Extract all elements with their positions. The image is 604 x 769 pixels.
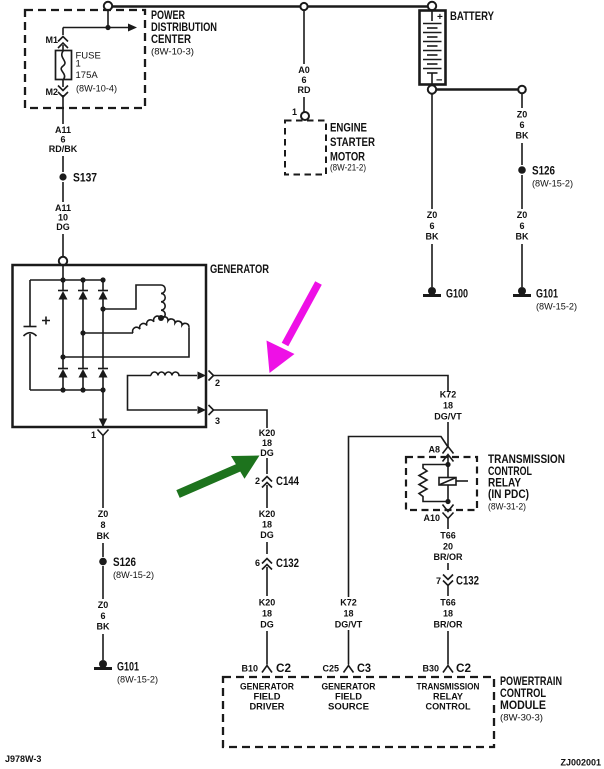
svg-text:175A: 175A bbox=[76, 70, 99, 81]
footer: drawing number ZJ002001 bbox=[560, 758, 601, 768]
connector A8 fork at relay bbox=[428, 445, 453, 465]
label K20 18 DG (top) bbox=[259, 428, 276, 458]
label: GENERATOR FIELD DRIVER bbox=[240, 682, 294, 713]
svg-text:B10: B10 bbox=[241, 664, 258, 674]
wire: stator phase B (col2 to coil) bbox=[83, 332, 133, 334]
svg-text:6: 6 bbox=[301, 75, 306, 85]
svg-text:CONTROL: CONTROL bbox=[426, 702, 471, 713]
svg-text:CENTER: CENTER bbox=[151, 32, 191, 46]
wire: generator ground lead to pin 1 bbox=[99, 390, 107, 427]
junction dots on bottom bus bbox=[60, 387, 105, 392]
svg-text:A11: A11 bbox=[55, 203, 71, 213]
diode D2 (upper, col 2) bbox=[78, 280, 88, 333]
svg-text:C3: C3 bbox=[357, 661, 371, 675]
junction dot at PDC bus bbox=[105, 25, 110, 30]
wire A11 6 RD/BK bbox=[49, 95, 78, 172]
svg-text:(8W-21-2): (8W-21-2) bbox=[330, 163, 366, 174]
wire: generator B+ lead into rectifier bbox=[62, 265, 64, 280]
svg-text:G100: G100 bbox=[446, 287, 468, 301]
svg-text:Z0: Z0 bbox=[98, 509, 109, 519]
label K72 18 DG/VT (upper) bbox=[434, 390, 462, 422]
connector A10 at relay bottom bbox=[423, 505, 453, 525]
svg-text:Z0: Z0 bbox=[98, 600, 109, 610]
ground G101 (right) bbox=[513, 287, 577, 313]
svg-text:STARTER: STARTER bbox=[330, 135, 375, 149]
svg-text:M2: M2 bbox=[45, 87, 58, 97]
label: GENERATOR FIELD SOURCE bbox=[322, 682, 376, 713]
svg-text:A0: A0 bbox=[298, 65, 310, 75]
wire: rectifier bottom bus bbox=[30, 389, 103, 391]
svg-text:2: 2 bbox=[255, 476, 260, 486]
stator winding phase C coil bbox=[161, 317, 189, 328]
splice S126 (right) bbox=[518, 164, 573, 190]
svg-text:DG: DG bbox=[260, 530, 274, 540]
svg-text:BR/OR: BR/OR bbox=[434, 620, 464, 630]
svg-text:18: 18 bbox=[443, 401, 453, 411]
wire T66 20 BR/OR bbox=[434, 524, 464, 570]
svg-text:(8W-15-2): (8W-15-2) bbox=[117, 675, 158, 686]
svg-text:6: 6 bbox=[255, 558, 260, 568]
wire K20 C144 to C132 bbox=[259, 485, 276, 554]
wire: stator phase C (coil corner to col1) bbox=[63, 328, 189, 358]
label: TRANSMISSION CONTROL RELAY bbox=[488, 452, 565, 513]
svg-text:18: 18 bbox=[262, 609, 272, 619]
stator winding phase B coil bbox=[133, 316, 161, 333]
wire: generator pin 3 to K20 bbox=[214, 410, 268, 428]
label: ENGINE STARTER MOTOR bbox=[330, 121, 375, 174]
svg-text:7: 7 bbox=[436, 576, 441, 586]
ground G100 bbox=[423, 287, 468, 301]
label: TRANSMISSION RELAY CONTROL bbox=[417, 682, 480, 713]
svg-text:C132: C132 bbox=[456, 574, 479, 588]
label: GENERATOR bbox=[210, 262, 269, 276]
svg-text:DG: DG bbox=[260, 620, 274, 630]
diode D1 (upper, col 1) bbox=[58, 280, 68, 357]
wire A11 10 DG bbox=[55, 182, 71, 257]
svg-text:Z0: Z0 bbox=[517, 110, 528, 120]
svg-text:T66: T66 bbox=[440, 598, 456, 608]
svg-text:(8W-15-2): (8W-15-2) bbox=[536, 302, 577, 313]
svg-text:C25: C25 bbox=[322, 664, 339, 674]
wire: rectifier top bus bbox=[30, 279, 103, 281]
wire Z0 6 BK S126 to G101 bbox=[516, 175, 529, 287]
wire: battery negative to right eyelet bbox=[436, 88, 518, 90]
wire: K72 lower to PCM bbox=[348, 630, 350, 665]
svg-text:ZJ002001: ZJ002001 bbox=[560, 758, 601, 768]
svg-text:J978W-3: J978W-3 bbox=[5, 754, 41, 764]
svg-text:DG: DG bbox=[260, 448, 274, 458]
svg-text:1: 1 bbox=[91, 430, 96, 440]
capacitor C (noise suppressor) bbox=[24, 280, 51, 390]
svg-text:(8W-15-2): (8W-15-2) bbox=[532, 179, 573, 190]
connector C132 (7, double chevron down) bbox=[436, 574, 479, 588]
wire: K72 branch to C25 bbox=[349, 437, 449, 598]
svg-text:8: 8 bbox=[100, 520, 105, 530]
svg-text:MODULE: MODULE bbox=[500, 698, 546, 712]
connector C144 (2, double chevron up) bbox=[255, 474, 299, 488]
relay coil bbox=[439, 465, 468, 502]
magenta highlight arrow bbox=[267, 283, 319, 373]
svg-text:1: 1 bbox=[76, 59, 81, 70]
wire: stator phase A (col3 to coil) bbox=[103, 285, 161, 309]
label: BATTERY bbox=[450, 9, 494, 23]
label: POWER DISTRIBUTION CENTER bbox=[151, 8, 217, 58]
svg-text:6: 6 bbox=[519, 120, 524, 130]
svg-text:BATTERY: BATTERY bbox=[450, 9, 494, 23]
pin 3 (field) arrow and chevron bbox=[198, 405, 221, 426]
junction dot stator neutral bbox=[158, 315, 164, 321]
svg-text:+: + bbox=[437, 12, 443, 23]
fuse F1 175A bbox=[56, 51, 72, 80]
svg-text:(8W-30-3): (8W-30-3) bbox=[500, 713, 543, 724]
svg-text:ENGINE: ENGINE bbox=[330, 121, 367, 135]
footer: sheet number J978W-3 bbox=[5, 754, 41, 764]
svg-text:BK: BK bbox=[516, 131, 529, 141]
svg-text:DRIVER: DRIVER bbox=[250, 702, 285, 713]
wire Z0 6 BK battery to G100 bbox=[426, 94, 439, 287]
svg-text:M1: M1 bbox=[45, 35, 58, 45]
stator winding phase A coil bbox=[161, 285, 165, 319]
green highlight arrow bbox=[178, 456, 260, 495]
svg-text:SOURCE: SOURCE bbox=[328, 702, 369, 713]
diode D3 (upper, col 3) bbox=[98, 280, 108, 309]
svg-text:A8: A8 bbox=[428, 445, 440, 455]
svg-text:Z0: Z0 bbox=[517, 210, 528, 220]
wire Z0 6 BK eyelet to S126 bbox=[516, 93, 529, 165]
pin 2 (field) arrow and chevron bbox=[198, 371, 221, 389]
svg-text:RD/BK: RD/BK bbox=[49, 144, 78, 154]
power distribution center dashed box bbox=[25, 10, 145, 108]
svg-text:K20: K20 bbox=[259, 598, 276, 608]
wire: PDC internal feed with arrow bbox=[63, 24, 137, 36]
svg-text:K72: K72 bbox=[340, 598, 357, 608]
svg-text:T66: T66 bbox=[440, 531, 456, 541]
svg-text:DG: DG bbox=[56, 222, 70, 232]
svg-text:20: 20 bbox=[443, 542, 453, 552]
wire K20 to C144 bbox=[266, 458, 268, 474]
diode D5 (lower, col 2) bbox=[78, 333, 88, 390]
svg-text:−: − bbox=[436, 75, 442, 87]
svg-text:(8W-15-2): (8W-15-2) bbox=[113, 570, 154, 581]
svg-text:DG/VT: DG/VT bbox=[335, 620, 363, 630]
svg-text:BK: BK bbox=[516, 232, 529, 242]
pin 1 connector fork bbox=[91, 430, 109, 442]
junction dot col2 phase tap bbox=[80, 330, 85, 335]
ground G101 (left) bbox=[94, 660, 158, 686]
svg-text:(IN PDC): (IN PDC) bbox=[488, 487, 529, 501]
svg-text:RD: RD bbox=[298, 85, 311, 95]
connector C25 fork at PCM bbox=[322, 661, 371, 675]
wire Z0 8 BK generator to S126 bbox=[97, 441, 110, 557]
generator box bbox=[13, 265, 207, 427]
svg-text:A10: A10 bbox=[423, 513, 440, 523]
svg-text:K20: K20 bbox=[259, 509, 276, 519]
svg-text:1: 1 bbox=[292, 107, 297, 117]
svg-text:Z0: Z0 bbox=[427, 210, 438, 220]
node: A0 tap eyelet bbox=[300, 3, 307, 10]
svg-text:MOTOR: MOTOR bbox=[330, 150, 365, 164]
svg-text:(8W-31-2): (8W-31-2) bbox=[488, 502, 526, 513]
connector B10 fork at PCM bbox=[241, 661, 291, 675]
svg-text:(8W-10-3): (8W-10-3) bbox=[151, 47, 194, 58]
svg-text:C2: C2 bbox=[276, 661, 291, 675]
svg-text:A11: A11 bbox=[55, 125, 71, 135]
svg-text:6: 6 bbox=[519, 221, 524, 231]
engine starter motor dashed box bbox=[285, 121, 326, 175]
svg-text:GENERATOR: GENERATOR bbox=[210, 262, 269, 276]
diode D6 (lower, col 3) bbox=[98, 309, 108, 390]
diode D4 (lower, col 1) bbox=[58, 357, 68, 390]
svg-text:BR/OR: BR/OR bbox=[434, 552, 464, 562]
battery B1 bbox=[420, 2, 446, 94]
svg-text:18: 18 bbox=[443, 609, 453, 619]
wire T66 18 BR/OR bbox=[434, 586, 464, 665]
svg-text:10: 10 bbox=[58, 213, 68, 223]
svg-text:G101: G101 bbox=[536, 287, 558, 301]
svg-text:3: 3 bbox=[215, 416, 220, 426]
connector B30 fork at PCM bbox=[422, 661, 471, 675]
svg-text:S137: S137 bbox=[73, 171, 97, 185]
svg-text:C2: C2 bbox=[456, 661, 471, 675]
junction dot col1 phase tap bbox=[60, 354, 65, 359]
svg-text:18: 18 bbox=[262, 438, 272, 448]
wire: K72 down to A8 bbox=[447, 422, 449, 447]
transmission control relay dashed box bbox=[406, 457, 477, 510]
svg-text:S126: S126 bbox=[532, 164, 555, 178]
wire: PDC internal from terminal to junction bbox=[107, 10, 109, 28]
svg-text:2: 2 bbox=[215, 378, 220, 388]
svg-text:G101: G101 bbox=[117, 660, 139, 674]
node: eyelet right of battery bbox=[518, 86, 526, 94]
wire A0 6 RD bbox=[298, 10, 311, 112]
svg-text:C144: C144 bbox=[276, 474, 299, 488]
svg-text:18: 18 bbox=[262, 520, 272, 530]
svg-text:DG/VT: DG/VT bbox=[434, 412, 462, 422]
svg-text:BK: BK bbox=[426, 232, 439, 242]
relay internal: bottom junction dot bbox=[445, 499, 450, 504]
splice S137 bbox=[59, 171, 97, 185]
powertrain control module dashed box bbox=[223, 677, 494, 747]
relay internal: top junction dot bbox=[445, 462, 450, 467]
connector C132 (6, double chevron up) bbox=[255, 556, 299, 570]
svg-text:S126: S126 bbox=[113, 555, 136, 569]
svg-text:BK: BK bbox=[97, 531, 110, 541]
svg-text:18: 18 bbox=[343, 609, 353, 619]
svg-text:6: 6 bbox=[60, 135, 65, 145]
connector M1 (double chevron up) bbox=[45, 35, 68, 51]
svg-text:K72: K72 bbox=[440, 390, 457, 400]
svg-text:(8W-10-4): (8W-10-4) bbox=[76, 84, 117, 95]
label: fuse value bbox=[76, 51, 118, 95]
label K72 18 DG/VT (lower) bbox=[335, 598, 363, 630]
field winding (rotor) loop bbox=[128, 372, 198, 410]
wire Z0 6 BK S126 to G101 left bbox=[97, 566, 110, 660]
junction dots on top bus bbox=[60, 277, 105, 282]
svg-text:C132: C132 bbox=[276, 556, 299, 570]
svg-text:6: 6 bbox=[429, 221, 434, 231]
label: POWERTRAIN CONTROL MODULE bbox=[500, 674, 562, 724]
svg-text:BK: BK bbox=[97, 622, 110, 632]
wire: B+ bus from PDC to battery bbox=[108, 5, 430, 7]
wire K20 C132 to PCM bbox=[259, 567, 276, 665]
relay internal resistor bbox=[419, 465, 448, 502]
connector M2 (double chevron down) bbox=[45, 80, 68, 98]
node: PDC output terminal eyelet bbox=[104, 2, 112, 10]
junction dot col3 phase tap bbox=[100, 306, 105, 311]
wire: generator pin 2 to K72 (field source feed) bbox=[214, 376, 449, 393]
svg-text:K20: K20 bbox=[259, 428, 276, 438]
svg-text:B30: B30 bbox=[422, 664, 439, 674]
svg-text:6: 6 bbox=[100, 611, 105, 621]
node: generator output terminal eyelet bbox=[59, 257, 67, 265]
node: starter motor terminal 1 bbox=[292, 107, 309, 120]
splice S126 (left) bbox=[99, 555, 154, 581]
